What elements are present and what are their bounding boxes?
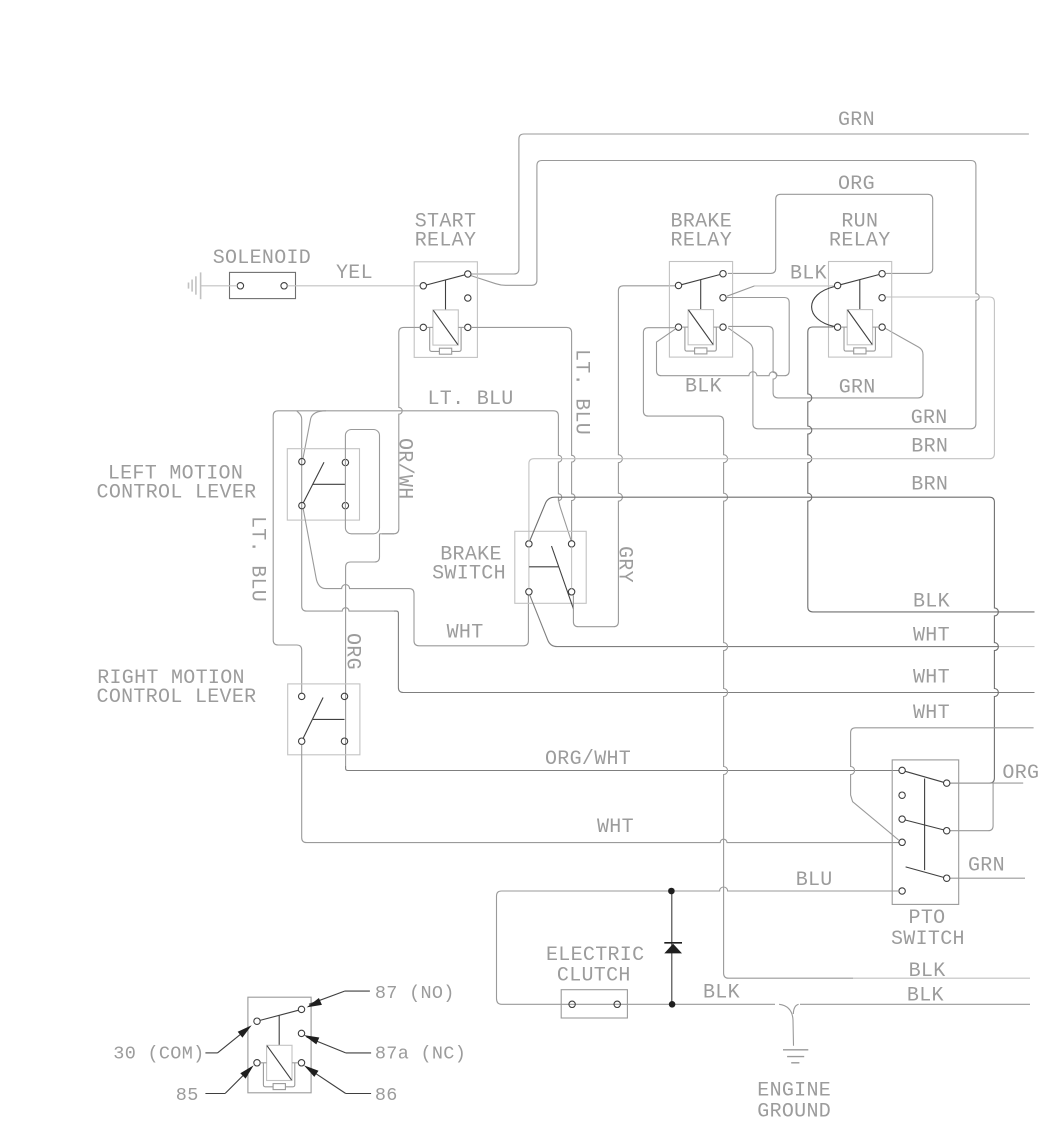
wire GRN (PTO R3 stub right) [950, 877, 1025, 879]
PTO arm 2 [905, 820, 943, 830]
PTO arm 3 [906, 867, 944, 878]
wire GRY (brake relay COM to brake switch BR) [573, 286, 676, 627]
wire BLK (run coil-L down to BLK line) [808, 327, 1035, 612]
wire WHT (brake switch BL to right edge) [530, 595, 1035, 646]
wire loop around left lever right pins [345, 430, 379, 534]
label BLK (right lower) [907, 985, 944, 1008]
label BRAKE SWITCH [432, 544, 506, 586]
wire loop bottom extension [380, 533, 395, 535]
diode D1 [664, 943, 682, 954]
label YEL [336, 262, 373, 285]
svg-text:SWITCH: SWITCH [891, 928, 965, 951]
label RIGHT MOTION CONTROL LEVER [97, 667, 257, 709]
label ENGINE GROUND [757, 1080, 831, 1124]
label RUN RELAY [829, 211, 891, 253]
wire LT BLU (horizontal, lever arch to brake switch riser) [273, 411, 571, 693]
wire to engine ground [779, 1004, 799, 1046]
ground (solenoid) [189, 272, 201, 299]
label GRN (second right) [911, 407, 948, 430]
svg-text:LT. BLU: LT. BLU [246, 516, 269, 602]
PTO pins left [899, 767, 905, 894]
svg-text:ENGINE: ENGINE [757, 1080, 831, 1103]
svg-text:GROUND: GROUND [757, 1101, 831, 1124]
leader 87 [307, 991, 370, 1007]
wire BLK (brake NC to run COM) [755, 285, 834, 287]
label GRN (PTO) [968, 855, 1005, 878]
svg-text:RELAY: RELAY [671, 230, 733, 253]
svg-text:WHT: WHT [913, 625, 950, 648]
label PTO SWITCH [891, 907, 965, 951]
label LEFT MOTION CONTROL LEVER [97, 462, 257, 504]
svg-text:GRN: GRN [839, 377, 876, 400]
label ORG [838, 173, 875, 196]
wire BLU (left riser, BLU line to PTO P5, clutch BLK line) [497, 887, 1031, 1004]
svg-text:SOLENOID: SOLENOID [213, 247, 311, 270]
wire GRN (start relay NO to top right edge) [471, 134, 1029, 274]
left lever bar [313, 483, 346, 485]
right lever bar [313, 718, 345, 720]
PTO inner vertical [924, 779, 926, 871]
label WHT (right 3rd) [913, 702, 950, 725]
relay RUN (symbol) [829, 262, 892, 358]
leader 86 [304, 1065, 371, 1093]
svg-text:WHT: WHT [913, 702, 950, 725]
label GRN (mid) [839, 377, 876, 400]
label WHT (lower left) [597, 816, 634, 839]
leader 30 [205, 1025, 251, 1053]
svg-text:LT. BLU: LT. BLU [570, 349, 593, 435]
svg-text:BLK: BLK [703, 982, 740, 1005]
svg-text:86: 86 [375, 1085, 398, 1106]
label BRN (1) [911, 436, 948, 459]
label 86 [375, 1085, 398, 1106]
svg-text:RELAY: RELAY [829, 230, 891, 253]
svg-text:WHT: WHT [913, 667, 950, 690]
label BLU [796, 869, 833, 892]
switch BRAKE box [515, 531, 586, 603]
solenoid pins [237, 283, 287, 289]
svg-text:CLUTCH: CLUTCH [557, 964, 631, 987]
right lever pins [299, 693, 348, 744]
label GRN [838, 109, 875, 132]
label ELECTRIC CLUTCH [546, 944, 644, 988]
wire ORG/GRN2 (start NO - right column - brake relay coil) [471, 161, 979, 429]
label 30 (COM) [113, 1044, 204, 1065]
svg-text:SWITCH: SWITCH [432, 563, 506, 586]
label ORG (vertical) [341, 633, 364, 670]
PTO pins right [944, 780, 950, 882]
svg-text:BRN: BRN [911, 474, 948, 497]
wire BLK (light right portion) [853, 977, 1030, 979]
label LT. BLU [428, 388, 514, 411]
label BRN (2) [911, 474, 948, 497]
relay detail (pin numbering) [248, 997, 311, 1093]
label ORG/WHT [545, 748, 631, 771]
svg-text:BLK: BLK [907, 985, 944, 1008]
label LT. BLU (vertical left) [246, 516, 269, 602]
label ORG (right) [1002, 762, 1039, 785]
wire left column (arch down left lever column) [297, 411, 394, 611]
left lever pins [299, 458, 349, 508]
wire ORG (brake relay NO - run relay NO arch) [728, 194, 933, 273]
svg-text:WHT: WHT [597, 816, 634, 839]
node (BLU junction) [668, 888, 675, 895]
label WHT (right 2nd) [913, 667, 950, 690]
switch ELECTRIC CLUTCH box [561, 990, 627, 1018]
leader 85 [205, 1065, 253, 1093]
svg-text:ORG: ORG [341, 633, 364, 670]
node (clutch junction) [669, 1001, 676, 1008]
svg-text:BLU: BLU [796, 869, 833, 892]
wire ORG (left lever loop down through right lever) [346, 534, 380, 766]
svg-text:ORG/WHT: ORG/WHT [545, 748, 631, 771]
svg-text:BLK: BLK [685, 376, 722, 399]
svg-text:BLK: BLK [913, 591, 950, 614]
wire corner to left lever TL pin [303, 411, 326, 459]
svg-text:ORG: ORG [1002, 762, 1039, 785]
brake switch arm [552, 546, 574, 609]
label BLK (top) [790, 263, 827, 286]
wire ORG (PTO R1 stub right) [950, 782, 1023, 784]
svg-text:BLK: BLK [909, 960, 946, 983]
svg-text:PTO: PTO [909, 907, 946, 930]
svg-text:YEL: YEL [336, 262, 373, 285]
label OR/WH (vertical) [393, 438, 416, 500]
switch RIGHT MOTION box [288, 684, 360, 755]
label SOLENOID [213, 247, 311, 270]
label 85 [176, 1085, 199, 1106]
switch PTO box [892, 760, 959, 905]
label BLK (brake coil) [685, 376, 722, 399]
wire LT BLU (start relay coil to brake switch) [471, 327, 575, 540]
svg-text:CONTROL LEVER: CONTROL LEVER [97, 686, 257, 709]
wire OR/WH (start relay coil to left lever loop) [382, 327, 420, 533]
wire diode vertical [671, 891, 673, 1004]
solenoid box [230, 272, 296, 298]
relay BRAKE (symbol) [669, 262, 732, 358]
svg-text:GRN: GRN [968, 855, 1005, 878]
brake switch bar [529, 566, 559, 568]
wire BRN (run NC to brake switch TL) [529, 297, 995, 541]
svg-text:OR/WH: OR/WH [393, 438, 416, 500]
svg-text:BRN: BRN [911, 436, 948, 459]
svg-text:87 (NO): 87 (NO) [375, 983, 455, 1004]
svg-text:GRN: GRN [838, 109, 875, 132]
svg-text:WHT: WHT [447, 622, 484, 645]
leader 87a [304, 1035, 371, 1053]
svg-text:85: 85 [176, 1085, 199, 1106]
brake switch pins [526, 541, 575, 595]
wire (left lever arm to brake switch BL) [303, 509, 528, 646]
label WHT (right 1st) [913, 625, 950, 648]
brake switch columns [529, 547, 572, 589]
svg-text:RELAY: RELAY [415, 230, 477, 253]
wire ORG/WHT (to PTO switch P1) [346, 766, 899, 771]
ground ENGINE (symbol) [783, 1050, 808, 1063]
svg-text:30 (COM): 30 (COM) [113, 1044, 204, 1065]
wire BLK (brake coil-L down center to bottom right) [643, 328, 853, 979]
wire ground to solenoid [201, 285, 238, 287]
wire YEL (solenoid to start relay COM) [287, 285, 420, 287]
label BLK (clutch) [703, 982, 740, 1005]
svg-text:LT. BLU: LT. BLU [428, 388, 514, 411]
wire WHT (second line to right edge) [394, 611, 1035, 692]
label GRY (vertical) [613, 546, 636, 583]
clutch pins [569, 1001, 621, 1007]
svg-text:BLK: BLK [790, 263, 827, 286]
label BLK (right upper) [909, 960, 946, 983]
label LT. BLU (vertical mid) [570, 349, 593, 435]
wire WHT (right lever to PTO switch) [302, 745, 899, 843]
wire C-curve (run COM to run coil-L) [812, 287, 835, 327]
switch LEFT MOTION box [287, 449, 359, 520]
svg-text:CONTROL LEVER: CONTROL LEVER [97, 482, 257, 505]
svg-text:87a (NC): 87a (NC) [375, 1044, 466, 1065]
label 87a (NC) [375, 1044, 466, 1065]
svg-text:ORG: ORG [838, 173, 875, 196]
label BRAKE RELAY [671, 211, 733, 253]
label START RELAY [415, 211, 477, 253]
left lever arm [303, 462, 324, 503]
svg-text:GRY: GRY [613, 546, 636, 583]
label WHT (left) [447, 622, 484, 645]
wire WHT (WHT3 line and riser to PTO P4) [851, 728, 1034, 840]
PTO arm 1 [905, 771, 943, 782]
right lever arm [303, 698, 323, 739]
relay START (symbol) [414, 262, 477, 358]
label 87 (NO) [375, 983, 455, 1004]
svg-text:GRN: GRN [911, 407, 948, 430]
wire BLK (brake relay NC to coil loop) [657, 286, 790, 376]
label BLK (right mid) [913, 591, 950, 614]
wire BRN (brake switch TL to right column down to PTO) [530, 497, 999, 783]
wire GRN (brake coil-R to run coil-R) [728, 326, 923, 398]
wire (PTO R2 up to ORG line) [950, 783, 993, 831]
